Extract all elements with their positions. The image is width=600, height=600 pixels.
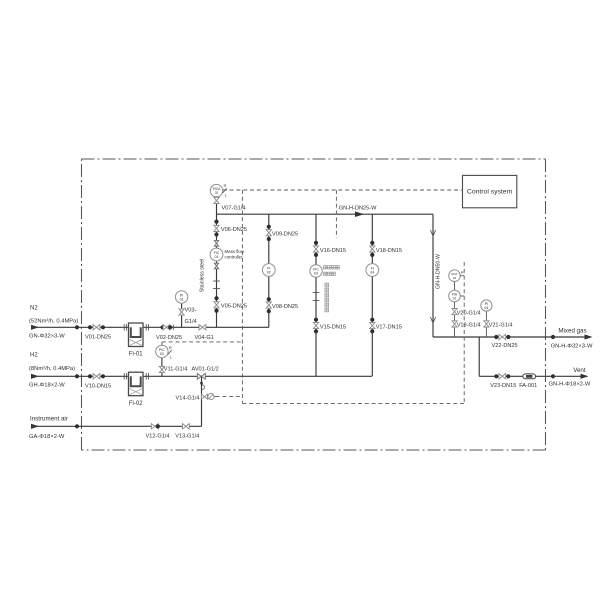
svg-text:(52Nm³/h, 0.4MPa): (52Nm³/h, 0.4MPa) — [29, 319, 78, 325]
signal AIAT to trunk — [460, 275, 464, 277]
valve V22-DN25 — [492, 334, 518, 349]
N2 pipe line — [31, 326, 269, 328]
svg-text:02: 02 — [267, 270, 271, 274]
svg-text:R: R — [224, 183, 227, 188]
branch 3 riser — [315, 214, 317, 376]
valve V01-DN25 — [85, 325, 111, 341]
down arrow 1 — [430, 230, 435, 236]
svg-text:R: R — [169, 345, 172, 350]
air inlet arrow — [31, 424, 39, 429]
down arrow 2 — [430, 317, 435, 323]
flow indicator FI-02 — [262, 264, 275, 277]
pressure regulator PIC-03 — [156, 345, 173, 360]
air riser to AV01 — [201, 376, 203, 426]
valve V13-G1/4 — [175, 424, 199, 440]
svg-text:V20-G1/4: V20-G1/4 — [457, 310, 481, 316]
mass flow controller FIC-03 — [310, 265, 340, 277]
valve V06-DN25 — [214, 225, 247, 233]
boundary crossing dot air — [75, 424, 79, 428]
svg-text:G1/4: G1/4 — [185, 319, 197, 325]
N2 inlet label — [29, 306, 78, 325]
svg-text:N2: N2 — [30, 306, 38, 312]
svg-text:V01-DN25: V01-DN25 — [85, 335, 111, 341]
svg-text:01: 01 — [180, 297, 184, 301]
pressure gauge PI-04 — [481, 300, 492, 311]
mixed gas down pipe GN-H-DN50-W — [433, 214, 441, 337]
node branch1 dot2 — [214, 232, 218, 236]
H2 pipe spec GH-phi18x2-W — [29, 383, 65, 389]
mass flow controller FIC-01 — [210, 248, 245, 261]
flange marks Fi-01 outlet — [146, 324, 148, 330]
svg-text:GN-H-Φ18×2-W: GN-H-Φ18×2-W — [549, 381, 591, 387]
svg-text:04: 04 — [484, 306, 488, 310]
svg-text:01: 01 — [453, 296, 457, 300]
svg-text:V13-G1/4: V13-G1/4 — [175, 434, 199, 440]
svg-text:V16-DN15: V16-DN15 — [320, 248, 346, 254]
valve V08-DN25 — [266, 302, 298, 310]
valve V21-G1/4 — [484, 321, 513, 329]
gauge stub PI-04 — [485, 311, 487, 337]
flange marks Fi-02 inlet — [124, 373, 126, 379]
AV01 actuator — [200, 379, 205, 394]
svg-text:GN-H-Φ32×3-W: GN-H-Φ32×3-W — [551, 344, 593, 350]
svg-text:V03-: V03- — [185, 308, 197, 314]
node branch4 dot1 — [370, 241, 374, 245]
valve V20-G1/4 — [452, 309, 481, 317]
svg-text:GN-Φ32×3-W: GN-Φ32×3-W — [29, 334, 65, 340]
node branch4 dot4 — [370, 329, 374, 333]
valve V10-DN15 — [85, 374, 111, 390]
vent pipe — [479, 375, 553, 377]
filter Fi-02 — [129, 372, 144, 407]
svg-text:GN-H-DN25-W: GN-H-DN25-W — [339, 205, 377, 211]
svg-text:H: H — [461, 271, 464, 275]
node branch3 dot3 — [314, 318, 318, 322]
flow indicator FI-04 — [366, 264, 379, 277]
svg-text:Vent: Vent — [573, 367, 586, 374]
H2 inlet arrow — [31, 374, 39, 379]
node branch2 dot2 — [267, 237, 271, 241]
node V03 branch tee — [181, 304, 183, 328]
signal trunk vertical — [241, 190, 243, 403]
H2 pipe line — [31, 375, 372, 377]
N2 pipe spec GN-phi32x3-W — [29, 334, 65, 340]
svg-text:V09-DN25: V09-DN25 — [272, 231, 298, 237]
flange marks Fi-01 inlet — [124, 324, 126, 330]
svg-text:FA-001: FA-001 — [519, 383, 537, 389]
system boundary (chain line) — [82, 159, 546, 450]
svg-text:(8Nm³/h, 0.4MPa): (8Nm³/h, 0.4MPa) — [29, 366, 75, 372]
Mixed gas label — [558, 328, 586, 335]
svg-text:Instrument air: Instrument air — [30, 416, 68, 423]
stainless steel note — [200, 259, 206, 292]
valve V03-G1/4 — [179, 308, 197, 326]
pressure gauge PI-01 — [175, 291, 187, 303]
node branch4 dot3 — [370, 318, 374, 322]
filter Fi-01 — [129, 323, 144, 358]
svg-text:V21-G1/4: V21-G1/4 — [489, 323, 513, 329]
mixed gas spec GN-H-phi32x3-W — [551, 344, 593, 350]
control system box — [463, 175, 517, 207]
svg-text:V10-DN15: V10-DN15 — [85, 384, 111, 390]
signal FIA to trunk — [460, 295, 464, 297]
signal right trunk — [463, 262, 465, 403]
instrument air pipe — [31, 425, 202, 427]
svg-text:02: 02 — [215, 191, 219, 195]
svg-text:V19-G1/4: V19-G1/4 — [457, 323, 481, 329]
svg-text:Mixed gas: Mixed gas — [558, 328, 586, 335]
valve V12-G1/4 — [146, 424, 170, 440]
analyzer stub — [454, 282, 456, 338]
svg-text:Fi-01: Fi-01 — [129, 352, 143, 358]
svg-text:V02-DN25: V02-DN25 — [156, 335, 182, 341]
node branch2 dot1 — [267, 225, 271, 229]
boundary crossing dot H2 — [75, 374, 79, 378]
signal stub branch3 — [335, 190, 337, 238]
valve V19-G1/4 — [452, 321, 481, 329]
boundary crossing dot N2 — [75, 325, 79, 329]
svg-text:Fi-02: Fi-02 — [129, 401, 143, 407]
valve V04-G1 — [195, 325, 214, 341]
svg-text:controller: controller — [225, 255, 244, 260]
node branch3 dot2 — [314, 253, 318, 257]
valve V16-DN15 — [313, 246, 346, 254]
svg-text:V15-DN15: V15-DN15 — [320, 324, 346, 330]
valve V11-G1/4 — [159, 366, 187, 372]
branch 1 riser — [216, 197, 218, 327]
svg-text:Stainless steel: Stainless steel — [200, 259, 206, 292]
valve V15-DN15 — [313, 322, 346, 330]
svg-text:03: 03 — [314, 271, 318, 275]
svg-text:Mass flow: Mass flow — [225, 249, 245, 254]
valve V18-DN15 — [370, 246, 402, 254]
stainless note chinese — [325, 283, 329, 312]
svg-text:V14-G1/4: V14-G1/4 — [176, 396, 200, 402]
flange marks Fi-02 outlet — [146, 373, 148, 379]
N2 header pipe GN-H-DN25-W — [217, 205, 434, 214]
flow alarm FIA-01 — [449, 290, 461, 302]
svg-text:H2: H2 — [30, 353, 38, 359]
signal line PIC-03 to trunk — [162, 342, 243, 345]
svg-text:02: 02 — [453, 276, 457, 280]
svg-text:V04-G1: V04-G1 — [195, 335, 214, 341]
node branch3 dot4 — [314, 329, 318, 333]
svg-text:V05-DN25: V05-DN25 — [221, 304, 247, 310]
svg-text:V08-DN25: V08-DN25 — [272, 304, 298, 310]
svg-text:L: L — [225, 193, 228, 198]
valve V23-DN15 — [490, 374, 516, 389]
boundary crossing dot mixed gas — [551, 335, 555, 339]
svg-text:V22-DN25: V22-DN25 — [492, 343, 518, 349]
node branch1 dot3 — [214, 296, 218, 300]
node branch2 dot3 — [267, 297, 271, 301]
node PIC-03 stub — [161, 358, 163, 376]
union marks branch1 — [213, 281, 220, 289]
valve V02-DN25 — [156, 325, 182, 341]
signal line PICA-02 to control system — [223, 189, 463, 191]
union marks branch3 — [313, 293, 320, 301]
N2 inlet arrow — [31, 325, 39, 330]
vent outlet arrow — [553, 374, 589, 379]
branch 2 riser — [268, 214, 270, 327]
svg-text:01: 01 — [215, 255, 219, 259]
V14 regulator circle — [208, 394, 214, 400]
node branch1 dot4 — [214, 309, 218, 313]
mixed gas outlet arrow — [553, 334, 593, 339]
branch 4 riser — [371, 214, 373, 376]
svg-text:L: L — [170, 355, 173, 360]
valve V05-DN25 — [214, 302, 247, 310]
svg-text:V06-DN25: V06-DN25 — [221, 227, 247, 233]
svg-text:03: 03 — [160, 352, 164, 356]
valve V17-DN15 — [370, 322, 402, 330]
signal line V14 to trunk — [216, 396, 243, 398]
svg-text:GH-Φ18×2-W: GH-Φ18×2-W — [29, 383, 65, 389]
node branch1 upper dot — [214, 220, 218, 224]
svg-text:V17-DN15: V17-DN15 — [376, 324, 402, 330]
node branch2 dot4 — [267, 309, 271, 313]
control valve AV01-G1/2 — [192, 366, 219, 379]
H2 inlet label — [29, 353, 75, 373]
flame arrestor FA-001 — [519, 374, 537, 389]
MFC inlet valve — [214, 241, 218, 247]
svg-text:AV01-G1/2: AV01-G1/2 — [192, 366, 219, 372]
valve V14-G1/4 — [176, 394, 216, 401]
reducer tick — [172, 325, 174, 330]
svg-text:Control system: Control system — [467, 188, 513, 195]
pressure controller PICA-02 — [210, 183, 227, 198]
vent spec GN-H-phi18x2-W — [549, 381, 591, 387]
MFC outlet valve — [214, 263, 218, 269]
boundary crossing dot vent — [551, 374, 555, 378]
valve V07-G1/4 — [214, 197, 246, 211]
svg-text:V07-G1/4: V07-G1/4 — [222, 205, 246, 211]
header flow arrow — [355, 211, 364, 217]
svg-text:04: 04 — [370, 270, 374, 274]
signal bottom run — [242, 402, 464, 404]
svg-text:V23-DN15: V23-DN15 — [490, 383, 516, 389]
valve V09-DN25 — [266, 230, 298, 238]
air pipe spec GA-phi18x2-W — [29, 434, 65, 440]
svg-text:GN-H-DN50-W: GN-H-DN50-W — [435, 254, 441, 289]
analyzer AIAT-02 — [449, 270, 464, 282]
Vent label — [573, 367, 586, 374]
collector pipe — [433, 336, 553, 338]
node branch4 dot2 — [370, 253, 374, 257]
svg-text:V18-DN15: V18-DN15 — [376, 248, 402, 254]
svg-text:GA-Φ18×2-W: GA-Φ18×2-W — [29, 434, 65, 440]
node branch3 dot1 — [314, 241, 318, 245]
svg-text:V12-G1/4: V12-G1/4 — [146, 434, 170, 440]
Instrument air label — [30, 416, 68, 423]
svg-text:V11-G1/4: V11-G1/4 — [164, 366, 188, 372]
vent drop pipe — [478, 337, 480, 376]
